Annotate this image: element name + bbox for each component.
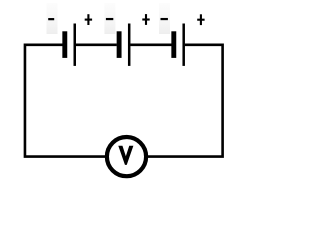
polarity label '-' for cell 2 (with light highlight box) (104, 3, 115, 34)
polarity label '+' for cell 3 (197, 14, 204, 25)
battery cell 1 negative plate (thick short bar) (62, 31, 67, 58)
wire from cell 3 positive terminal around right side of loop to voltmeter right terminal (148, 45, 223, 157)
polarity label '+' for cell 1 (85, 14, 92, 25)
polarity label '-' for cell 1 (with light highlight box) (47, 3, 58, 34)
wire between cell 1 positive terminal and cell 2 negative terminal (76, 43, 117, 46)
voltmeter body (circle) (107, 137, 146, 176)
battery cell 3 positive plate (thin long line) (182, 24, 185, 66)
polarity label '+' for cell 2 (142, 14, 149, 25)
battery cell 3 negative plate (thick short bar) (171, 31, 176, 58)
battery cell 2 negative plate (thick short bar) (117, 31, 122, 58)
battery cell 2 positive plate (thin long line) (128, 24, 131, 66)
wire from cell 1 negative terminal around left side of loop to voltmeter left terminal (25, 45, 105, 157)
battery cell 1 positive plate (thin long line) (74, 24, 77, 66)
polarity label '-' for cell 3 (with light highlight box) (159, 3, 170, 34)
wire between cell 2 positive terminal and cell 3 negative terminal (130, 43, 171, 46)
voltmeter letter V (118, 146, 133, 165)
